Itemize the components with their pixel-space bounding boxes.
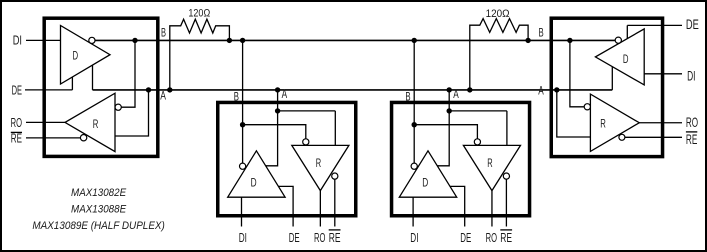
svg-text:R: R xyxy=(600,117,606,131)
svg-text:RO: RO xyxy=(11,115,22,130)
svg-text:B: B xyxy=(539,26,544,40)
svg-text:DE: DE xyxy=(686,16,699,32)
svg-text:D: D xyxy=(73,48,79,62)
svg-text:B: B xyxy=(161,26,166,40)
svg-text:A: A xyxy=(160,89,166,103)
svg-text:MAX13089E (HALF DUPLEX): MAX13089E (HALF DUPLEX) xyxy=(32,220,165,232)
svg-text:RE: RE xyxy=(329,230,341,245)
svg-text:D: D xyxy=(623,52,629,66)
svg-text:120Ω: 120Ω xyxy=(486,8,510,20)
svg-text:DI: DI xyxy=(239,230,247,245)
svg-text:RO: RO xyxy=(314,230,325,245)
svg-text:DE: DE xyxy=(12,82,23,97)
svg-text:R: R xyxy=(93,117,99,131)
svg-text:D: D xyxy=(251,176,257,190)
svg-text:DE: DE xyxy=(289,230,300,245)
svg-text:120Ω: 120Ω xyxy=(188,8,210,20)
svg-text:MAX13082E: MAX13082E xyxy=(71,187,126,199)
svg-text:A: A xyxy=(282,87,288,101)
svg-text:A: A xyxy=(538,84,544,98)
svg-text:RE: RE xyxy=(686,131,697,147)
svg-text:DI: DI xyxy=(13,32,22,47)
svg-text:RO: RO xyxy=(686,114,698,130)
svg-text:MAX13088E: MAX13088E xyxy=(71,204,126,216)
svg-text:DI: DI xyxy=(687,67,695,83)
svg-text:R: R xyxy=(316,156,322,170)
